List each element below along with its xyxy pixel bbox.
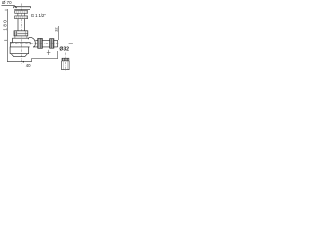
wall tube body <box>62 61 70 70</box>
node centerline stub right <box>69 43 73 45</box>
nut wall tube <box>62 58 69 61</box>
cup rim joint <box>10 46 30 48</box>
node vertical centerline <box>20 4 22 64</box>
nut upper knurled <box>15 11 28 14</box>
nut trap inlet <box>14 31 28 36</box>
dimension height tick <box>4 39 7 41</box>
elbow dome <box>29 37 36 46</box>
wire leader dia70 <box>2 5 17 7</box>
svg-text:G 1 1/2″: G 1 1/2″ <box>31 13 46 18</box>
svg-text:Ø32: Ø32 <box>59 47 69 53</box>
drain plug mark <box>47 50 51 55</box>
flange underside <box>14 8 30 10</box>
dimension end extension <box>57 51 59 59</box>
wire inlet pipe <box>18 19 24 31</box>
dimension arrow at centerline <box>21 61 24 63</box>
nut outlet right <box>50 39 54 49</box>
dimension stub vertical right <box>58 26 60 40</box>
cup bottom <box>10 53 29 55</box>
cup base taper <box>11 54 27 57</box>
trap body neck <box>15 36 27 38</box>
node horizontal centerline <box>10 43 59 45</box>
cup rim <box>10 43 30 47</box>
svg-text:Ø 70: Ø 70 <box>2 0 12 5</box>
dimension bottom left line <box>7 61 31 63</box>
wire outlet pipe <box>33 40 58 47</box>
node wall tube centerline <box>65 53 67 72</box>
thread between nuts <box>18 13 25 16</box>
nut outlet left <box>38 38 43 48</box>
svg-text:180: 180 <box>2 19 7 31</box>
svg-text:32: 32 <box>54 27 59 31</box>
flange top disc <box>14 7 31 8</box>
trap body upper <box>13 38 29 42</box>
dimension height line <box>6 9 8 62</box>
dimension bottom right line <box>32 58 58 60</box>
nut lower knurled <box>15 16 28 19</box>
svg-text:40: 40 <box>26 63 31 68</box>
cup body <box>10 47 29 54</box>
dimension step tick <box>31 59 33 62</box>
